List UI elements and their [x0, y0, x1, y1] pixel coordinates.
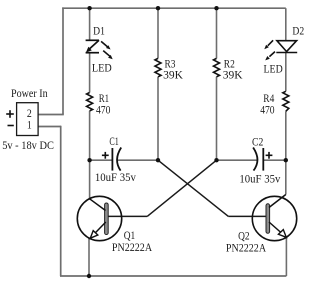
wire D1 cathode to R1: [89, 53, 91, 93]
LED D1 emission arrow 1: [101, 41, 111, 49]
junction dot top rail at D1 branch: [87, 6, 91, 10]
wire C2 right plate to node D: [263, 159, 286, 161]
svg-text:PN2222A: PN2222A: [226, 242, 267, 254]
svg-text:1: 1: [27, 120, 32, 132]
capacitor C1 curved plate: [117, 148, 121, 171]
LED D1: [86, 40, 99, 52]
LED D2 emission arrow 1: [264, 40, 273, 49]
junction dot node B: [156, 158, 160, 162]
LED D2: [276, 41, 297, 53]
wire cross coupling node C to Q1 base diagonal: [147, 160, 216, 216]
svg-text:39K: 39K: [223, 69, 243, 81]
svg-text:C1: C1: [109, 136, 119, 148]
svg-text:LED: LED: [264, 63, 283, 75]
transistor Q1 circle: [77, 196, 121, 240]
LED D1 emission arrow 2: [103, 51, 113, 60]
svg-text:470: 470: [260, 105, 275, 117]
junction dot node A: [87, 158, 91, 162]
transistor Q1 base bar: [105, 203, 109, 235]
svg-text:Q1: Q1: [124, 230, 136, 242]
transistor Q2 circle: [252, 196, 296, 240]
wire R2 to top rail: [216, 8, 218, 58]
wire C1 right plate to node B: [117, 159, 158, 161]
resistor R1: [87, 93, 93, 111]
wire connector pin 2 to positive rail: [38, 114, 64, 116]
svg-text:470: 470: [96, 104, 111, 116]
wire bottom rail: [60, 275, 286, 277]
junction dot bottom rail at Q1 emitter: [87, 274, 91, 278]
wire D2 anode to top rail: [285, 8, 287, 41]
wire R3 to top rail: [157, 8, 159, 58]
svg-text:Q2: Q2: [238, 230, 250, 242]
wire Q1 base horizontal: [108, 215, 147, 217]
svg-text:2: 2: [27, 108, 32, 120]
svg-text:5v - 18v DC: 5v - 18v DC: [2, 140, 54, 152]
transistor Q2 collector line: [269, 195, 286, 208]
wire left positive rail vertical: [62, 7, 64, 114]
wire R4 to node D: [285, 111, 287, 160]
wire R1 to node A: [89, 111, 91, 160]
wire cross coupling node B to Q2 base diagonal: [158, 160, 228, 216]
wire R3 to node B: [157, 77, 159, 160]
junction dot node C: [214, 158, 218, 162]
wire node A to C1 left plate: [90, 159, 113, 161]
capacitor C2 plus sign: [266, 152, 273, 159]
svg-text:C2: C2: [252, 137, 264, 149]
svg-text:10uF 35v: 10uF 35v: [95, 172, 136, 184]
transistor Q2 base bar: [266, 204, 270, 234]
junction dot top rail at R3 branch: [156, 6, 160, 10]
junction dot top rail at R2 branch: [214, 6, 218, 10]
wire connector pin 1 to ground return: [38, 126, 61, 128]
resistor R2: [214, 58, 220, 76]
svg-text:LED: LED: [92, 62, 112, 74]
wire top rail: [62, 7, 286, 9]
capacitor C1 plus plate: [111, 148, 113, 171]
connector J1 Power In box: [17, 103, 38, 136]
wire Q2 base horizontal: [228, 215, 266, 217]
svg-text:R4: R4: [263, 93, 274, 105]
transistor Q1 emitter arrowhead: [90, 231, 98, 239]
svg-text:D2: D2: [292, 26, 304, 38]
transistor Q1 collector line: [90, 199, 106, 211]
transistor Q1 emitter line: [90, 222, 106, 238]
junction dot node D: [284, 158, 288, 162]
wire ground return vertical: [60, 126, 62, 276]
wire Q2 emitter to bottom rail: [285, 237, 287, 276]
wire node D to Q2 collector: [285, 160, 287, 194]
wire node A to Q1 collector: [89, 160, 91, 199]
wire D2 cathode to R4: [285, 53, 287, 92]
svg-text:10uF 35v: 10uF 35v: [239, 173, 280, 185]
svg-text:39K: 39K: [163, 69, 183, 81]
wire node C to C2 left plate: [217, 159, 258, 161]
connector J1 minus polarity mark: [8, 125, 14, 127]
connector J1 plus polarity mark: [6, 110, 14, 118]
svg-text:PN2222A: PN2222A: [112, 242, 153, 254]
capacitor C1 plus sign: [102, 152, 109, 159]
transistor Q2 emitter line: [269, 222, 286, 237]
resistor R3: [155, 58, 161, 76]
LED D2 emission arrow 2: [265, 52, 275, 61]
resistor R4: [283, 91, 289, 111]
capacitor C2 plus plate: [262, 148, 264, 171]
wire D1 anode to top rail: [89, 8, 91, 40]
svg-text:D1: D1: [93, 26, 105, 38]
capacitor C2 curved plate: [253, 148, 257, 171]
transistor Q2 emitter arrowhead: [278, 230, 286, 238]
LED D1 cathode arrowhead: [86, 47, 92, 53]
wire R2 to node C: [216, 77, 218, 160]
wire Q1 emitter to bottom rail: [88, 238, 90, 276]
svg-text:Power In: Power In: [11, 88, 48, 100]
